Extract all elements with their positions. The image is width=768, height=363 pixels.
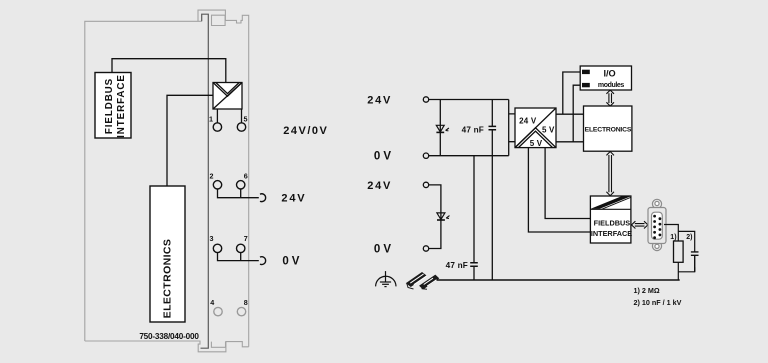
arrow electronics-fieldbus <box>606 152 614 196</box>
capacitor C2 47nF <box>470 263 478 266</box>
fieldbus interface box right <box>590 196 631 243</box>
svg-text:4: 4 <box>210 298 214 307</box>
wire dcdc to fieldbus 1 <box>545 148 590 219</box>
diode D2 <box>437 213 450 220</box>
svg-text:47 nF: 47 nF <box>446 261 468 270</box>
wire fieldbus to converter <box>112 59 226 83</box>
svg-text:2): 2) <box>686 234 692 241</box>
ground bus <box>436 279 680 281</box>
fieldbus interface box U1 <box>95 73 131 139</box>
node 0V-2 <box>423 246 428 251</box>
DB9 connector J1 <box>648 199 666 250</box>
diode D1 <box>436 125 449 132</box>
svg-text:3: 3 <box>210 234 214 243</box>
converter K1 <box>213 83 242 110</box>
wire lower pair <box>429 185 441 249</box>
wire dcdc output stubs <box>556 114 584 142</box>
wire diode branch 1 <box>439 100 441 156</box>
svg-text:47 nF: 47 nF <box>462 126 484 135</box>
svg-text:5 V: 5 V <box>542 125 555 134</box>
svg-text:2) 10 nF / 1 kV: 2) 10 nF / 1 kV <box>634 298 682 307</box>
clamp hook 24V <box>260 194 266 202</box>
svg-text:24V: 24V <box>281 193 306 205</box>
wire 0V rail <box>429 155 509 157</box>
svg-text:FIELDBUS: FIELDBUS <box>594 218 631 227</box>
terminal 4 <box>214 307 222 315</box>
svg-text:I/O: I/O <box>603 68 615 78</box>
wire dcdc input stubs <box>509 114 515 142</box>
svg-text:INTERFACE: INTERFACE <box>591 229 632 238</box>
io modules pin 2 <box>582 83 590 87</box>
wire converter to electronics <box>167 95 213 186</box>
wire bus terminals 2-6 <box>218 189 259 198</box>
wire dcdc to fieldbus 2 <box>528 148 590 232</box>
wire DB9 to RC network <box>664 225 695 281</box>
svg-text:0V: 0V <box>282 256 302 268</box>
arrow io-electronics <box>606 90 614 106</box>
svg-text:ELECTRONICS: ELECTRONICS <box>161 239 173 319</box>
wire cap branch 2 <box>473 156 475 280</box>
resistor R1 <box>674 241 684 262</box>
svg-text:0V: 0V <box>374 244 394 256</box>
io modules pin 1 <box>582 70 590 74</box>
svg-text:1) 2 MΩ: 1) 2 MΩ <box>634 286 660 295</box>
dcdc converter K2 <box>515 108 556 148</box>
module top notch <box>212 15 226 25</box>
svg-text:750-338/040-000: 750-338/040-000 <box>139 332 199 341</box>
svg-text:7: 7 <box>244 234 248 243</box>
wire cap branch 1 <box>491 100 493 281</box>
svg-text:24V: 24V <box>367 180 392 192</box>
arrow fieldbus-connector <box>632 221 648 228</box>
electronics box right <box>584 106 632 151</box>
node 24V-1 <box>423 97 428 102</box>
svg-text:24 V: 24 V <box>519 117 537 126</box>
svg-text:5: 5 <box>244 115 248 124</box>
svg-text:8: 8 <box>244 298 248 307</box>
svg-text:2: 2 <box>210 172 214 181</box>
wire bus terminals 3-7 <box>218 253 259 261</box>
isolation band <box>590 208 631 210</box>
terminal 6 <box>237 181 245 189</box>
DB9 pins <box>653 215 661 239</box>
svg-text:1): 1) <box>670 234 676 241</box>
electronics box U2 <box>150 186 185 322</box>
svg-text:modules: modules <box>598 82 624 89</box>
terminal 2 <box>213 181 221 189</box>
terminal 5 <box>237 123 245 131</box>
node 0V-1 <box>423 153 428 158</box>
module separator line <box>201 14 209 348</box>
svg-text:24V/0V: 24V/0V <box>283 125 328 137</box>
svg-text:1: 1 <box>209 115 213 124</box>
io modules box <box>580 66 631 90</box>
module body silhouette <box>85 10 249 352</box>
svg-text:5 V: 5 V <box>530 139 543 148</box>
svg-text:ELECTRONICS: ELECTRONICS <box>585 126 632 133</box>
capacitor C3 <box>691 252 699 272</box>
capacitor C1 47nF <box>489 126 497 129</box>
wire to io modules 2 <box>573 85 582 142</box>
terminal 7 <box>237 244 245 252</box>
svg-text:INTERFACE: INTERFACE <box>116 74 127 138</box>
terminal 8 <box>237 307 245 315</box>
node 24V-2 <box>423 182 428 187</box>
wire stub terminal 1 <box>216 109 218 123</box>
svg-text:0V: 0V <box>374 151 394 163</box>
DIN rail symbol <box>407 273 439 290</box>
ground symbol <box>376 271 396 287</box>
svg-text:FIELDBUS: FIELDBUS <box>104 78 115 134</box>
wire to io modules 1 <box>563 72 582 114</box>
clamp hook 0V <box>260 257 266 265</box>
svg-text:6: 6 <box>244 172 248 181</box>
wire 24V rail <box>429 99 509 101</box>
wire input vertical <box>508 100 510 156</box>
svg-text:24V: 24V <box>367 95 392 107</box>
module bottom profile <box>85 341 249 352</box>
terminal 1 <box>213 123 221 131</box>
wire stub terminal 5 <box>241 109 243 123</box>
terminal 3 <box>213 244 221 252</box>
